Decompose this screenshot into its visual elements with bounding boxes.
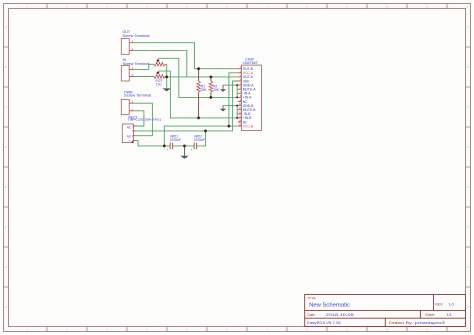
svg-text:Screw Terminal: Screw Terminal	[123, 34, 150, 38]
title block	[305, 295, 466, 327]
resistor R1 20K	[197, 69, 208, 118]
svg-text:+: +	[129, 139, 131, 143]
svg-text:12: 12	[465, 5, 469, 9]
wire POT1 wiper to chip +IN-A via R2 bottom	[158, 58, 238, 97]
svg-text:4700uF: 4700uF	[170, 138, 181, 142]
svg-text:New Schematic: New Schematic	[309, 302, 350, 308]
wire VCC rail	[164, 126, 238, 146]
svg-text:F: F	[5, 225, 7, 229]
potentiometer POT2 value POT 100	[154, 71, 165, 87]
ground G2 at chip GND-B	[220, 106, 226, 112]
svg-text:Screw Terminal: Screw Terminal	[124, 93, 151, 97]
svg-text:1.0: 1.0	[448, 303, 453, 307]
op-amp chip U1 LM4766T	[238, 57, 262, 130]
svg-text:100: 100	[156, 83, 162, 87]
svg-text:TITLE:: TITLE:	[307, 296, 316, 300]
ground G3 at pots	[162, 88, 171, 91]
capacitor VR52 4700uF	[190, 135, 205, 152]
capacitor VR51 4700uF	[166, 135, 181, 152]
svg-text:LM4766T: LM4766T	[243, 61, 259, 65]
svg-text:+: +	[166, 148, 168, 152]
svg-text:REV:: REV:	[435, 303, 443, 307]
svg-text:johanispro3: johanispro3	[413, 321, 444, 325]
node strap B bottom	[236, 117, 238, 119]
svg-text:EasyEDA V5.7.26: EasyEDA V5.7.26	[307, 321, 340, 325]
svg-text:E: E	[467, 185, 469, 189]
svg-text:A: A	[467, 25, 469, 29]
svg-text:DBPC25005W-E4/51: DBPC25005W-E4/51	[128, 118, 161, 122]
svg-text:11: 11	[425, 328, 428, 332]
svg-text:10: 10	[385, 5, 389, 9]
svg-text:H: H	[5, 305, 7, 309]
wire IN pin2 to POT2	[134, 76, 154, 78]
wire POT2 wiper to chip +IN-B via R1 bottom	[158, 71, 238, 118]
wire chip GND-B to ground	[223, 105, 238, 107]
node cap rail ground junction	[183, 145, 186, 148]
potentiometer POT1	[154, 59, 165, 66]
wire OUT-A net	[167, 76, 238, 78]
node POT right ends junction	[165, 76, 168, 79]
svg-text:4700uF: 4700uF	[194, 138, 205, 142]
wire strap pins 10-13 GND-B/MUTE-B/-IN-B/+IN-B	[236, 106, 238, 118]
wire strap pins 5-8 GND-A/MUTE-A/-IN-A/+IN-A	[236, 85, 238, 97]
wire VR52 to VEE rail	[197, 131, 206, 146]
node strap B top	[236, 105, 238, 107]
node VEE rail junction	[204, 130, 207, 133]
wire chip VEE to rectifier minus rail	[136, 81, 238, 131]
wire rectifier plus to cap rail	[136, 141, 170, 146]
wire OUT pin1 to chip OUT-B	[134, 43, 238, 69]
svg-text:12: 12	[465, 328, 469, 332]
screw terminal OUT	[121, 30, 149, 54]
svg-text:C: C	[5, 105, 7, 109]
svg-text:Sheet:: Sheet:	[425, 313, 435, 317]
svg-text:Drawn By:: Drawn By:	[389, 321, 413, 325]
wire PWR pin1 to rectifier AC1	[134, 111, 144, 126]
svg-text:B: B	[467, 65, 469, 69]
screw terminal IN	[121, 58, 149, 81]
svg-text:H: H	[467, 305, 469, 309]
svg-text:+: +	[190, 148, 192, 152]
svg-text:D: D	[467, 145, 469, 149]
svg-text:10: 10	[385, 328, 389, 332]
resistor R2 20K	[209, 77, 220, 98]
wire PWR pin2 to rectifier AC2	[134, 103, 152, 136]
wire POT1 right end to ground	[165, 64, 167, 88]
svg-text:11: 11	[425, 5, 428, 9]
node R1 top junction	[197, 67, 200, 70]
ground G1 at chip GND-A	[220, 85, 226, 92]
svg-text:F: F	[467, 225, 469, 229]
node R2 top junction	[210, 76, 213, 79]
wire IN pin1 to POT1	[134, 64, 154, 69]
ground G4 below caps	[180, 146, 189, 159]
svg-text:B: B	[5, 65, 7, 69]
svg-text:A: A	[5, 25, 7, 29]
wire chip GND-A to ground	[223, 84, 238, 86]
svg-text:Date:: Date:	[307, 313, 315, 317]
svg-text:C: C	[467, 105, 469, 109]
wire chip VCC-A riser	[229, 73, 238, 126]
wire cap rail VR51 to VR52	[173, 145, 195, 147]
svg-text:VCC-B: VCC-B	[243, 124, 254, 128]
node R1 bottom junction	[197, 117, 200, 120]
node cap rail left junction	[163, 145, 166, 148]
svg-text:20K: 20K	[213, 88, 220, 92]
node strap A bottom	[236, 96, 238, 98]
node R2 bottom junction	[210, 96, 213, 99]
node strap A top	[236, 84, 238, 86]
screw terminal PWR	[121, 90, 151, 114]
node VCC rail junction	[228, 125, 231, 128]
wire POT2 right end	[165, 76, 167, 78]
svg-text:D: D	[5, 145, 7, 149]
bridge rectifier RECT DBPC25005W-E4/51	[122, 115, 161, 143]
svg-text:20K: 20K	[201, 88, 208, 92]
wire OUT pin2 riser to OUT-A net	[134, 50, 187, 77]
svg-text:2018-10-09: 2018-10-09	[326, 313, 354, 317]
svg-text:E: E	[5, 185, 7, 189]
svg-text:1/1: 1/1	[447, 313, 452, 317]
